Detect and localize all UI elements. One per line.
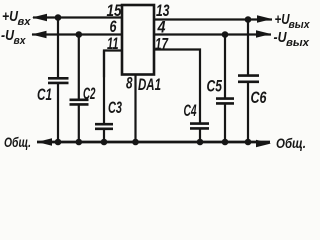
node junction C1 ground — [55, 139, 62, 146]
svg-text:вых: вых — [286, 37, 310, 49]
svg-text:вх: вх — [14, 35, 27, 47]
svg-text:DA1: DA1 — [138, 76, 161, 94]
svg-text:6: 6 — [110, 18, 118, 36]
svg-text:C5: C5 — [207, 78, 223, 96]
svg-text:C6: C6 — [251, 89, 268, 107]
node junction pin8 ground — [132, 139, 139, 146]
wire +Uvyx output rail — [154, 18, 272, 20]
wire pin 8 ground lead — [134, 75, 136, 143]
arrow input -Uvx — [32, 31, 47, 38]
svg-text:вх: вх — [18, 16, 32, 28]
arrow output +Uvyx — [257, 15, 272, 22]
wire -Uvyx output rail — [154, 33, 271, 35]
node junction C5 ground — [222, 139, 229, 146]
node junction C1 on +Uvx rail — [55, 14, 62, 21]
svg-text:C1: C1 — [37, 86, 52, 104]
node junction C4 ground — [197, 139, 204, 146]
node junction C5 on -Uvyx rail — [222, 31, 229, 38]
capacitor C4 — [190, 124, 209, 142]
svg-text:8: 8 — [126, 74, 133, 92]
IC DA1 box — [122, 5, 154, 75]
svg-text:вых: вых — [289, 19, 311, 31]
capacitor C1 — [48, 18, 69, 143]
wire -Uvx input rail — [32, 33, 122, 35]
capacitor C3 — [95, 124, 113, 142]
svg-text:13: 13 — [156, 2, 170, 20]
svg-text:Общ.: Общ. — [4, 134, 31, 150]
svg-text:17: 17 — [155, 35, 169, 53]
wire C3 lower lead — [103, 51, 105, 124]
arrow input +Uvx — [32, 14, 47, 21]
wire pin 11 to C3 — [104, 51, 122, 78]
arrow ground right — [256, 140, 271, 147]
svg-text:+U: +U — [2, 8, 19, 25]
capacitor C2 — [70, 35, 89, 143]
node junction C6 on +Uvyx rail — [245, 16, 252, 23]
svg-text:C4: C4 — [184, 102, 197, 120]
node junction C3 ground — [101, 139, 108, 146]
wire pin 17 to C4 — [154, 50, 200, 123]
svg-text:C2: C2 — [83, 85, 96, 103]
node junction C6 ground — [245, 139, 252, 146]
svg-text:11: 11 — [107, 35, 119, 53]
capacitor C5 — [216, 35, 234, 143]
svg-text:Общ.: Общ. — [276, 135, 306, 151]
arrow ground left — [37, 138, 52, 145]
wire +Uvx input rail — [33, 16, 122, 18]
node junction C2 ground — [76, 139, 83, 146]
capacitor C6 — [238, 20, 259, 143]
node junction C2 on -Uvx rail — [76, 31, 83, 38]
svg-text:4: 4 — [157, 19, 166, 37]
wire common ground bus — [37, 141, 270, 144]
arrow output -Uvyx — [256, 30, 271, 37]
svg-text:C3: C3 — [108, 99, 122, 117]
